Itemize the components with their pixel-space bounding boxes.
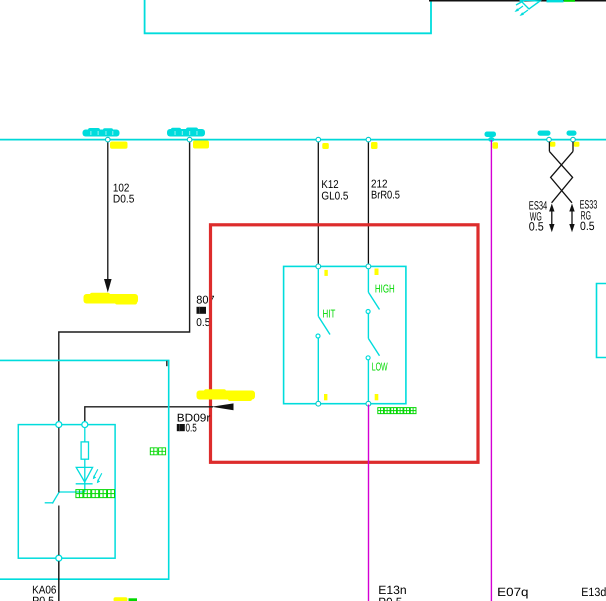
svg-text:E07q: E07q [497,585,528,599]
crossover ES34/ES33 [549,142,573,203]
svg-text:D0.5: D0.5 [113,193,134,205]
svg-text:K12: K12 [321,179,338,191]
label E13n P0.5 [378,583,406,601]
node on bus x=368 [366,137,371,142]
highlight H1 (yellow) [110,142,128,149]
highlight H5 (yellow) [493,142,499,149]
net label blob A (cyan) [83,128,120,137]
svg-text:P0.5: P0.5 [32,596,54,601]
lamp pin C bottom [56,555,62,561]
top edge black trace [429,0,606,2]
connector box top (cyan) [145,0,431,33]
label work warning lamp (green CJK) [76,490,115,498]
highlight H2 (yellow) [193,141,209,149]
node on bus x=108 [106,137,111,142]
resistor R (cyan) [81,428,88,459]
arrow ES33 (double headed) [569,204,574,233]
svg-text:GL0.5: GL0.5 [321,190,348,202]
diode D (cut off at top) [515,0,541,16]
LED lamp symbol (cyan) [59,459,102,492]
node on bus x=318 [316,137,321,142]
pin 3 bottom [316,401,321,406]
node on bus x=549 [547,137,552,142]
wire E07q (magenta) [490,140,492,601]
label 212 BrR0.5 [371,178,400,201]
wire KA06 (dark) [58,561,60,601]
node on bus x=491 (solid) [488,137,494,142]
label K12 GL0.5 [321,179,348,202]
label E07q [497,585,528,599]
corner tick [166,361,168,366]
net label blob C (cyan) [485,132,497,138]
lamp module outer box (cyan) [0,360,169,579]
svg-text:0.5: 0.5 [529,220,544,234]
connector box right edge (cyan) [597,284,606,358]
svg-text:0.5: 0.5 [580,219,595,233]
svg-text:LOW: LOW [372,361,388,373]
pin mark yellow 4 [375,394,379,400]
svg-text:HIGH: HIGH [375,283,395,295]
lamp internal return wire (dark) [58,506,60,556]
lamp inner box (cyan) [18,425,115,559]
wire 807 [59,140,190,422]
green mark top right [564,0,575,2]
wire K12 [317,140,319,265]
label BD09r B0.5 [177,413,211,435]
label HIT (green) [323,309,336,321]
label 807 B 0.5 [196,294,214,329]
svg-text:P0.5: P0.5 [378,595,402,601]
highlight H6 (yellow) [550,142,556,147]
switch contact HIT [316,269,330,402]
small connector box bottom edge (cyan) [547,0,564,2]
net label blob B (cyan) [167,128,205,137]
switch contact HIGH [366,269,379,314]
net label blob D (cyan) [538,131,551,136]
label ES33 RG 0.5 [580,198,598,233]
svg-text:0.5: 0.5 [186,422,197,434]
arrow ES34 (double headed) [549,204,554,233]
svg-text:BrR0.5: BrR0.5 [371,189,400,201]
pin 1 top [316,264,321,269]
label LOW (green) [372,361,388,373]
svg-text:E13d: E13d [581,585,606,599]
lamp pin A [56,422,62,428]
lamp pin B [82,422,88,428]
highlight bar under 102 arrow (yellow) [84,293,139,305]
highlight bar BD09 (yellow) [197,389,256,401]
label HIGH (green) [375,283,395,295]
svg-text:0.5: 0.5 [196,317,210,329]
red frame [211,225,479,462]
pin mark yellow 2 [375,269,379,276]
pin 4 bottom [366,401,371,406]
label 102 D0.5 [113,183,134,206]
green mark bottom [129,598,138,601]
highlight H3 (yellow) [322,143,329,149]
wire 102 [104,140,112,293]
highlight H4 (yellow) [371,142,378,149]
lamp internal feed wire (dark) [58,428,60,493]
wire BD09r with arrow [85,403,234,421]
switch contact in lamp box (cyan) [45,492,59,503]
wire E13n (magenta) [368,405,370,601]
label E13d [581,585,606,599]
node on bus x=189.5 [187,137,192,142]
pin mark yellow 3 [324,394,327,400]
net label blob E (cyan) [567,131,577,136]
pin 2 top [366,264,371,269]
wire 212 [367,140,369,265]
fan switch box S (cyan) [284,266,406,403]
label KA06 P0.5 [32,585,56,601]
fan switch name (green CJK) [378,408,416,414]
pin mark yellow 1 [324,270,327,276]
node on bus x=573 [571,137,576,142]
switch contact LOW [366,314,379,402]
highlight bottom (yellow) [114,597,128,601]
svg-text:HIT: HIT [323,309,336,321]
main bus wire (cyan horizontal) [0,139,606,141]
label ES34 WG 0.5 [529,198,548,233]
label on-vehicle (green CJK) [150,448,165,455]
highlight H7 (yellow) [574,142,580,147]
